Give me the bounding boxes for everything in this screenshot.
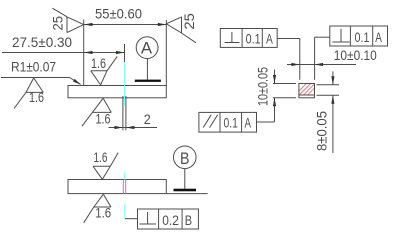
- svg-text:27.5±0.30: 27.5±0.30: [12, 34, 72, 50]
- feature control frame // 0.1 A: [199, 112, 275, 132]
- dimension R1±0.07 with leader: [1, 59, 81, 85]
- dimension 27.5±0.30: [2, 34, 125, 62]
- svg-text:10±0.05: 10±0.05: [255, 67, 271, 106]
- surface finish 1.6 (above upper bar): [91, 55, 117, 85]
- svg-text:0.2: 0.2: [162, 212, 179, 228]
- svg-text:0.1: 0.1: [355, 29, 370, 45]
- dimension 8±0.05: [314, 71, 335, 153]
- surface finish 1.6 (above lower bar): [93, 149, 118, 180]
- svg-text:B: B: [180, 149, 190, 168]
- svg-text:0.1: 0.1: [224, 115, 239, 131]
- cross-section square with hatch: [294, 83, 320, 100]
- surface finish 1.6 (below upper bar): [82, 98, 111, 126]
- node: cyan centerline above lower bar: [124, 172, 126, 180]
- wire: left extension lines of 10±0.05: [273, 83, 296, 85]
- svg-text:1.6: 1.6: [95, 204, 111, 220]
- svg-text:2: 2: [144, 111, 151, 127]
- svg-text:55±0.60: 55±0.60: [95, 6, 142, 22]
- surface finish 1.6 (standalone under R1 leader): [14, 78, 44, 109]
- svg-text:25: 25: [50, 16, 66, 31]
- node: cyan centerline below lower bar: [124, 204, 126, 219]
- upper bar part outline: [68, 86, 166, 98]
- node: magenta slot line left (lower view): [122, 180, 124, 194]
- wire: right extension lines of 8±0.05: [317, 84, 340, 86]
- svg-text:10±0.10: 10±0.10: [334, 47, 377, 63]
- wire: 55 dim left extension line: [83, 20, 85, 86]
- surface finish 25 (left, rotated): [50, 8, 84, 32]
- lower bar part outline: [68, 180, 166, 194]
- svg-text:1.6: 1.6: [96, 111, 111, 127]
- svg-text:8±0.05: 8±0.05: [314, 111, 330, 151]
- surface finish 25 (right, rotated): [166, 13, 197, 43]
- wire: lower bar bottom edge extension: [166, 193, 207, 195]
- datum A symbol: [135, 37, 161, 82]
- svg-text:R1±0.07: R1±0.07: [11, 59, 56, 75]
- svg-text:A: A: [375, 29, 382, 45]
- surface finish 1.6 (below lower bar): [84, 194, 112, 223]
- svg-text:1.6: 1.6: [29, 89, 44, 105]
- svg-text:A: A: [245, 115, 252, 131]
- svg-text:25: 25: [181, 13, 197, 30]
- svg-text:1.6: 1.6: [94, 149, 108, 165]
- feature control frame ⊥ 0.1 A (right): [315, 26, 388, 46]
- svg-text:1.6: 1.6: [91, 55, 106, 71]
- wire: 55 dim right extension line: [165, 20, 167, 86]
- svg-text:A: A: [141, 39, 153, 58]
- dimension 2: [109, 111, 158, 129]
- wire: extension line above square right: [314, 37, 316, 80]
- dimension 10±0.05: [255, 67, 277, 122]
- svg-text:A: A: [266, 30, 273, 46]
- node: magenta slot line right (lower view): [125, 180, 127, 194]
- wire: slot edge right: [125, 96, 127, 130]
- dimension 10±0.10: [287, 47, 377, 66]
- wire: slot edge left: [122, 96, 124, 130]
- node: cyan centerline (upper view): [124, 62, 126, 106]
- wire: extension line above square left: [299, 39, 301, 80]
- dimension 55±0.60: [84, 6, 166, 27]
- datum B symbol: [174, 146, 197, 191]
- feature control frame ⊥ 0.2 B: [125, 209, 198, 229]
- feature control frame ⊥ 0.1 A (left): [220, 29, 299, 48]
- svg-text:B: B: [185, 212, 192, 228]
- svg-text:0.1: 0.1: [246, 30, 261, 46]
